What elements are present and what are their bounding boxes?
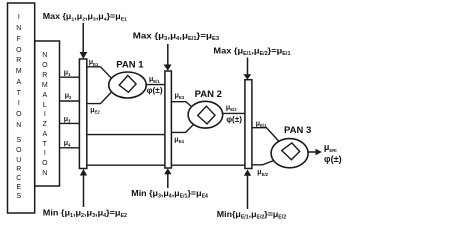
svg-text:PAN 1: PAN 1 <box>116 60 144 71</box>
PAN1 diamond <box>119 76 136 93</box>
wire PAN2 out to bar3 <box>223 112 245 114</box>
svg-text:M: M <box>42 82 48 89</box>
svg-text:C: C <box>16 175 21 182</box>
svg-text:φ(±): φ(±) <box>147 85 163 95</box>
svg-text:T: T <box>17 90 22 97</box>
svg-text:A: A <box>42 92 47 99</box>
wire muE4 (bar2 to PAN2 bottom) <box>171 125 193 133</box>
wire mu2 <box>60 100 80 102</box>
svg-text:N: N <box>16 122 21 129</box>
label Max1 <box>43 11 127 22</box>
arrow up into bar2 (Min2) <box>167 174 169 189</box>
svg-text:E: E <box>16 184 21 191</box>
wire mu1 <box>60 76 80 78</box>
svg-text:F: F <box>17 36 21 43</box>
wire mu3 <box>60 122 80 124</box>
svg-text:O: O <box>42 160 48 167</box>
arrow down into bar3 (Max3) <box>247 58 249 76</box>
svg-text:M: M <box>16 68 22 75</box>
wire muE2 (bar1 to PAN1 bottom) <box>87 91 113 104</box>
arrow up into bar1 (Min1) <box>83 175 85 208</box>
label Max3 <box>213 46 290 57</box>
comparator bar 2 <box>165 71 172 168</box>
comparator bar 3 <box>245 80 252 169</box>
output arrow of PAN3 <box>308 151 316 153</box>
wire muE1 (bar1 to PAN1 top) <box>87 67 111 78</box>
svg-text:Min {μ1,μ2,μ3,μ4}=μE2: Min {μ1,μ2,μ3,μ4}=μE2 <box>43 208 127 219</box>
svg-text:O: O <box>16 47 22 54</box>
wire bar2 to bar3 bottom <box>171 164 245 166</box>
svg-text:Z: Z <box>43 121 48 128</box>
wire mu4 <box>60 147 80 149</box>
arrow down into bar1 (Max1) <box>82 23 84 54</box>
svg-text:R: R <box>42 72 47 79</box>
svg-text:PAN 2: PAN 2 <box>195 89 222 100</box>
svg-text:O: O <box>16 147 22 154</box>
svg-text:T: T <box>43 141 48 148</box>
svg-text:PAN 3: PAN 3 <box>284 125 311 136</box>
label Min3 <box>217 209 286 221</box>
svg-text:I: I <box>44 150 46 157</box>
PAN2 diamond <box>198 106 215 124</box>
label Min2 <box>131 188 208 199</box>
block: INFORMATION SOURCES <box>8 3 35 213</box>
wire PAN1 out to bar2 <box>146 84 165 86</box>
svg-text:N: N <box>42 170 47 177</box>
svg-text:R: R <box>16 57 21 64</box>
arrow down into bar2 (Max2) <box>167 44 169 66</box>
PAN3 diamond <box>282 143 300 160</box>
svg-text:S: S <box>16 137 21 144</box>
comparator bar 1 <box>79 59 86 169</box>
arrow up into bar3 (Min3) <box>247 175 249 209</box>
svg-text:O: O <box>42 62 48 69</box>
op node PAN3 ellipse <box>271 139 308 168</box>
label Min1 <box>43 208 127 219</box>
svg-text:φ(±): φ(±) <box>324 154 342 164</box>
block: NORMALIZATION <box>35 41 60 186</box>
svg-text:R: R <box>16 166 21 173</box>
svg-text:A: A <box>42 131 47 138</box>
svg-text:N: N <box>42 52 47 59</box>
svg-text:φ(±): φ(±) <box>226 115 242 124</box>
svg-text:Min{μE/1,μE/2}=μE/2: Min{μE/1,μE/2}=μE/2 <box>217 209 286 221</box>
svg-text:N: N <box>16 25 21 32</box>
svg-text:L: L <box>43 102 47 109</box>
svg-text:I: I <box>18 100 20 107</box>
wire muEr2 (bar3 to PAN3 bottom) <box>252 161 274 165</box>
svg-text:I: I <box>44 111 46 118</box>
label Max2 <box>133 31 219 42</box>
svg-text:O: O <box>16 111 22 118</box>
svg-text:A: A <box>16 79 21 86</box>
svg-text:I: I <box>18 14 20 21</box>
svg-text:U: U <box>16 157 21 164</box>
svg-text:Max {μ1,μ2,μ3,μ4}=μE1: Max {μ1,μ2,μ3,μ4}=μE1 <box>43 11 127 22</box>
op node PAN2 ellipse <box>188 101 223 128</box>
wire muE3 (bar2 to PAN2 top) <box>171 102 191 107</box>
op node PAN1 ellipse <box>109 72 147 98</box>
wire mu3 pass (bar1 to bar2) <box>87 134 165 136</box>
wire muEr1 (bar3 to PAN3 top) <box>252 128 279 142</box>
wire mu4 pass (bar1 to bar2) <box>87 164 165 166</box>
svg-text:S: S <box>16 193 21 200</box>
